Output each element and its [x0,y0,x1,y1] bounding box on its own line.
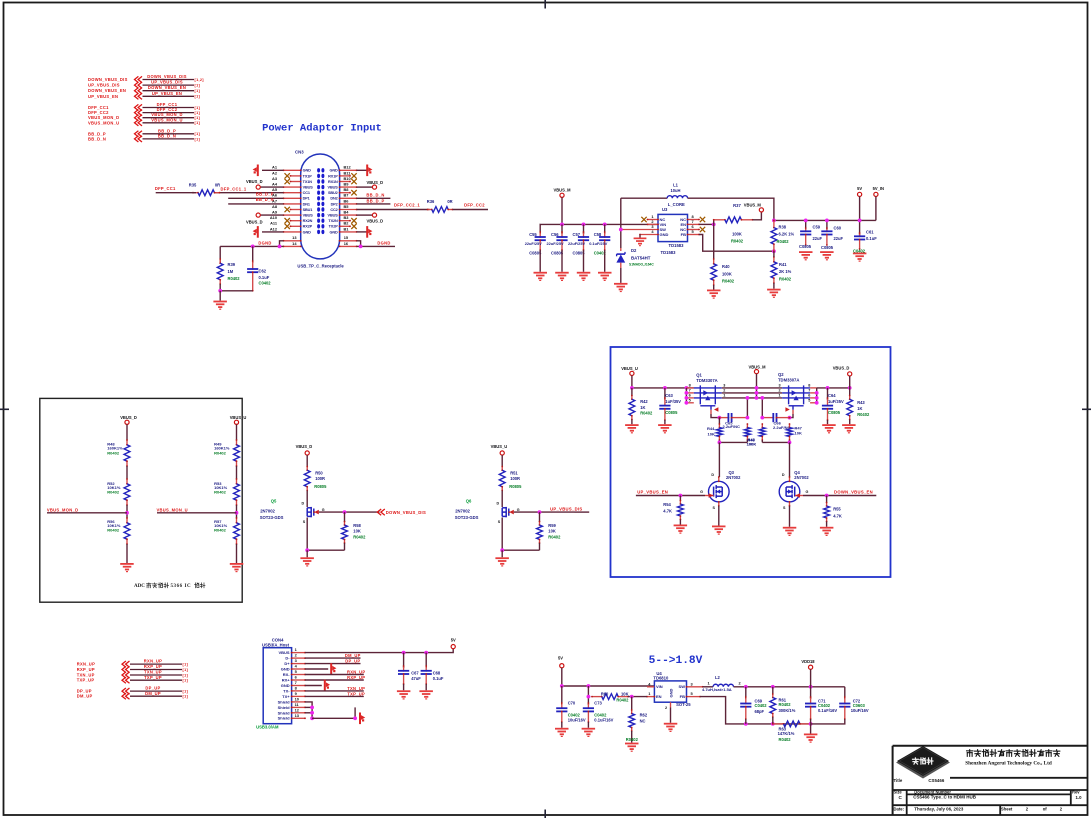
svg-text:of: of [1043,806,1048,811]
junction R54 tap [679,494,683,498]
svg-text:R0402: R0402 [107,450,120,455]
svg-text:BB_D_N: BB_D_N [256,197,274,202]
svg-text:TXP_UP: TXP_UP [347,691,365,696]
svg-text:SOT-25: SOT-25 [676,702,691,707]
wire Q1 to Q2 row2 [722,392,782,394]
wire BB_D_P A6 [228,197,283,199]
svg-text:100K: 100K [732,231,742,236]
resistor R63 147K in FB [773,723,784,725]
U3 right pin names [680,217,686,237]
ground below U4 [664,723,678,732]
labels R56 [107,519,121,533]
wire divider bottom [126,544,128,563]
svg-text:R41: R41 [779,262,787,267]
frame zone tick bottom [544,810,546,818]
resistor R60 10K [592,696,602,698]
svg-text:B2: B2 [344,221,350,226]
junction C68 [424,651,428,655]
svg-text:D-: D- [285,656,290,661]
wire B1 to gnd arrow [357,231,367,233]
svg-text:DFP_CC1_1: DFP_CC1_1 [221,186,247,191]
off-page connector DP_UP bottom [77,686,189,695]
capacitor C62 branch [252,246,254,263]
wire A4 to VBUS_D port [261,186,284,188]
svg-text:BB_D_P: BB_D_P [256,191,274,196]
svg-text:RXP_UP: RXP_UP [144,664,162,669]
U3 left pin numbers [651,214,654,234]
wire BB_D_N A7 [228,203,283,205]
CN3 pin B12 GND stub [340,169,357,171]
svg-text:R59: R59 [548,523,556,528]
svg-text:22uF/25V: 22uF/25V [547,241,564,246]
wire A1 to gnd arrow [262,169,284,171]
svg-text:R0402: R0402 [214,490,227,495]
junction R5x tap Q6 [538,510,542,514]
svg-text:C0805: C0805 [821,245,834,250]
svg-text:300K/1%: 300K/1% [779,708,796,713]
svg-text:[1]: [1] [183,695,189,699]
CON4 pin7 GND stub [292,685,305,687]
resistor R62 NC [629,697,635,743]
svg-text:6: 6 [689,394,691,398]
junction L1 out [772,219,776,223]
svg-text:[1]: [1] [195,84,201,88]
wire VIN rail [540,223,659,225]
junction C64 rail [826,386,830,390]
U3 pin4 GND stub [640,234,658,236]
svg-text:A10: A10 [270,215,277,220]
CON4 pin5 RX- stub [292,674,305,676]
wire Q3 source to ground [718,506,720,526]
svg-text:RXN_UP: RXN_UP [347,670,365,675]
ground below C73 [582,728,596,737]
wire shield to ground arrow [312,717,355,719]
svg-text:R55: R55 [833,507,841,512]
wire DFP_CC2 net [453,209,489,211]
ground at U3 pin4 [639,235,641,238]
resistor R48 160K [126,440,128,445]
svg-text:DGND: DGND [258,241,271,246]
ground below R42 [625,424,639,433]
svg-text:RXP_UP: RXP_UP [77,667,95,672]
svg-text:TDM3307A: TDM3307A [696,378,717,383]
no-connect X B11 [351,173,356,178]
power arrow CON4 pin7 [324,680,330,692]
ground below C57 [577,272,591,281]
U3 pin6 NC stub [688,229,700,231]
CN3 pin A2 stub [291,175,301,177]
svg-text:R0402: R0402 [722,278,735,283]
wire VBUS_M stem [561,197,563,224]
CN3 pin B11 stub [340,175,350,177]
svg-text:VDD18: VDD18 [801,659,815,664]
svg-text:U3: U3 [662,207,668,212]
CN3 pin S2 stub [284,245,301,247]
wire source to R bottom Q5 [307,549,344,551]
resistor pulldown at Q6 [537,512,543,550]
wire VIN rail regulator [562,685,655,687]
svg-text:0.1uF: 0.1uF [866,236,877,241]
svg-text:[1]: [1] [183,690,189,694]
svg-text:1: 1 [723,394,725,398]
svg-text:B3: B3 [344,215,350,220]
U4 pin1 EN stub [647,696,654,698]
wire R39 bottom [219,284,221,291]
U4 pin3 SW stub [687,686,703,688]
CN3 pin A4 VBUS stub [284,186,301,188]
off-page connector DOWN_VBUS_DIS [88,74,204,83]
svg-text:C68: C68 [433,670,441,675]
svg-text:DOWN_VBUS_EN: DOWN_VBUS_EN [148,85,186,90]
power port VBUS_M at R37 [759,208,763,212]
svg-text:0.1uF: 0.1uF [259,275,270,280]
CN3 pin A1 GND stub [284,169,301,171]
junction VBUS_M r3 [755,396,759,400]
svg-text:Q6: Q6 [466,498,472,503]
ground below C56 [555,272,569,281]
resistor R46 100K [759,423,765,442]
off-page connector DFP_CC2 [88,107,200,116]
no-connect X A8 [285,207,290,212]
U4 pin names [656,684,685,699]
U3 pin2 VIN stub [648,223,659,225]
svg-text:BB_D_P: BB_D_P [367,198,385,203]
wire FB down and right [699,235,774,252]
svg-text:TXN_UP: TXN_UP [347,686,365,691]
svg-text:5V: 5V [451,638,456,643]
ground below C59 [799,251,813,260]
svg-text:DOWN_VBUS_EN: DOWN_VBUS_EN [834,490,873,495]
svg-text:FB: FB [680,694,685,699]
CN3 pin A6 DP1 stub [284,197,301,199]
svg-text:VBUS_M: VBUS_M [744,203,762,208]
svg-text:B8: B8 [344,187,350,192]
inductor L1 10uH [667,196,687,199]
blue group box [611,347,891,577]
svg-text:DOWN_VBUS_DIS: DOWN_VBUS_DIS [88,77,128,82]
svg-text:R0402: R0402 [777,239,790,244]
wire source down Q6 [501,518,503,551]
wire source to R bottom Q6 [502,549,539,551]
svg-text:C0805: C0805 [799,244,812,249]
svg-text:DGND: DGND [377,241,390,246]
U3 pin3 SW stub [621,229,658,231]
resistor R38 6.2K [773,220,775,227]
junction FB gnd node [809,722,813,726]
CON4 pin4 GND stub [292,668,305,670]
no-connect X U3 pin8 [700,217,705,222]
wire SW node vertical [620,198,622,248]
no-connect X B8 [351,190,356,195]
labels R57 [214,519,228,533]
junction R55 tap [825,494,829,498]
svg-text:Power Adaptor Input: Power Adaptor Input [262,123,382,135]
wire Q1 gate node [711,414,719,418]
svg-text:A12: A12 [270,226,278,231]
svg-text:RX2N: RX2N [303,219,313,223]
power port VBUS_D at B4 [372,213,376,217]
svg-text:TXP_UP: TXP_UP [144,675,162,680]
capacitor C71 0.1uF [805,687,816,724]
svg-text:GND: GND [330,230,338,234]
ground below C60 [820,251,834,260]
svg-text:DM_UP: DM_UP [77,694,93,699]
wire L2 to VDD18 rail [734,686,845,688]
svg-text:C63: C63 [665,393,673,398]
svg-text:TX2N: TX2N [328,219,338,223]
svg-text:L1: L1 [673,182,679,187]
wire 5V_IN stem [875,197,877,221]
wire A12 to gnd arrow [262,231,284,233]
wire FB net down [700,697,744,724]
junction shield gnd [353,716,357,720]
svg-text:VBUS: VBUS [278,650,289,655]
capacitor C68 0.1uF [421,653,432,691]
resistor R52 [126,479,128,484]
svg-text:VBUS_M: VBUS_M [553,188,571,193]
svg-text:CN3: CN3 [295,150,304,155]
svg-text:TX1N: TX1N [303,180,313,184]
svg-text:VBUS_MON_U: VBUS_MON_U [151,117,182,122]
svg-text:B5: B5 [344,204,350,209]
svg-text:R0402: R0402 [107,490,120,495]
junction R61 bottom R63 left [771,722,775,726]
power arrow CON4 pin4 [330,663,336,675]
off-page connector VBUS_MON_D [88,112,200,121]
svg-text:1uF/35V: 1uF/35V [665,399,681,404]
wire FB bus [744,723,811,725]
svg-text:UP_VBUS_DIS: UP_VBUS_DIS [151,80,183,85]
resistor R50 100R [306,467,308,471]
ground below R55 [820,527,834,536]
wire GND pin4 [305,668,328,670]
svg-text:R0402: R0402 [626,737,639,742]
CN3 pin S1 stub [284,240,301,242]
resistor R55 4.7K [824,496,830,527]
svg-text:RX1N: RX1N [328,180,338,184]
svg-text:0.1uF/25V: 0.1uF/25V [589,241,608,246]
connector CON4 body [263,648,291,724]
svg-text:TDM3307A: TDM3307A [778,378,799,383]
CN3 pin B6 DP2 stub [340,203,357,205]
CN3 right pin numbers B12-B1 [344,165,352,232]
svg-text:DM_UP: DM_UP [345,653,361,658]
svg-text:VBUS: VBUS [328,186,339,190]
resistor R39 [219,259,221,263]
wire C66 left up to row3 [761,398,763,418]
resistor R40 100K EN pulldown [711,224,717,289]
svg-text:TXP_UP: TXP_UP [77,678,95,683]
svg-text:UP_VBUS_DIS: UP_VBUS_DIS [550,507,582,512]
no-connect X U3 pin6 [700,227,705,232]
wire R60 to EN pin [628,696,647,698]
junction shield 11 [310,706,314,710]
svg-text:[1]: [1] [195,111,201,115]
ground below divider VBUS_U [230,563,244,572]
svg-text:VBUS_M: VBUS_M [748,365,766,370]
CON4 pin names [278,650,291,721]
svg-text:TD6810: TD6810 [653,676,669,681]
wire TXN_UP [305,690,364,692]
svg-text:R60: R60 [601,691,609,696]
resistor R43 1K [847,388,853,424]
wire D2 to ground [620,268,622,283]
CN3 pin B2 stub [340,225,350,227]
capacitor C64 1uF/35V [822,388,833,424]
wire RXN_UP [305,674,364,676]
power port VBUS_D at A9 [256,213,260,217]
capacitor C59 22uF [800,220,811,246]
CN3 pin A10 stub [291,220,301,222]
svg-text:TX-: TX- [283,688,290,693]
no-connect X A2 [285,173,290,178]
svg-text:Date:: Date: [894,806,904,811]
svg-text:1K: 1K [640,405,645,410]
svg-text:68pF: 68pF [755,709,765,714]
resistor R44 10K [717,418,723,443]
svg-text:10uF/16V: 10uF/16V [851,708,869,713]
junction 5V rail [858,219,862,223]
ground below R54 [674,525,688,534]
wire divider mid2 [126,505,128,518]
CON4 shield pins stubs [291,701,306,719]
wire SW to L2 [703,686,713,688]
junction R46 top row [760,396,764,400]
svg-text:G: G [806,490,809,494]
caption ADC note chinese [134,583,205,589]
ground below D2 [614,283,628,292]
wire EN to R37/R40 node [699,223,714,225]
ground below Q3 [712,526,726,535]
svg-text:R42: R42 [640,399,648,404]
svg-text:TX+: TX+ [282,694,290,699]
svg-text:0.1uF/16V: 0.1uF/16V [594,717,613,722]
CON4 pin9 TX+ stub [292,695,305,697]
U4 pin2 GND stub [670,702,672,707]
ground below C63 [658,424,672,433]
junction C59 rail [804,219,808,223]
resistor R49 160K [236,440,238,445]
svg-text:2: 2 [723,389,725,393]
CN3 pin A7 DN1 stub [284,203,301,205]
logo chip diamond [896,746,950,779]
svg-text:22uF/25V: 22uF/25V [568,241,585,246]
svg-text:R47: R47 [795,425,803,430]
svg-text:A2: A2 [272,170,278,175]
svg-text:B4: B4 [344,210,350,215]
svg-text:22uF/25V: 22uF/25V [525,241,542,246]
junction C56 rail [582,223,586,227]
CN3 pin A11 stub [291,225,301,227]
svg-text:[1]: [1] [195,116,201,120]
svg-text:A1: A1 [272,165,278,170]
wire divider mid1 [236,466,238,479]
wire gate net ext Q6 [575,511,590,513]
off-page connector RXN_UP bottom [77,659,189,668]
svg-text:Shield: Shield [278,716,291,721]
junction C63 rail [663,386,667,390]
svg-text:4.7K: 4.7K [663,509,672,514]
junction EN node [712,223,716,227]
svg-text:A11: A11 [270,221,278,226]
svg-text:VBUS_U: VBUS_U [230,415,247,420]
svg-text:R0402: R0402 [228,276,241,281]
junction shield 13 [310,716,314,720]
junction Q1 bus r3 [685,396,689,400]
svg-text:SOT23-GDS: SOT23-GDS [455,515,479,520]
labels R53 [214,481,228,495]
capacitor C57 22uF/25V [568,224,589,271]
transistor Q3 2N7002 [705,442,729,506]
transistor Q1 TDM3307A dual pmos [686,385,721,414]
resistor R41 2K FB divider [771,251,777,289]
svg-text:G: G [700,490,703,494]
off-page connector BB_D_N [88,133,200,142]
wire shield bus [305,702,312,718]
off-page connector RXP_UP bottom [77,664,189,673]
wire U4 gnd [670,708,672,723]
CON4 pin3 D+ stub [292,663,305,665]
svg-text:100R: 100R [510,476,520,481]
svg-text:C64: C64 [828,393,836,398]
svg-text:UP_VBUS_DIS: UP_VBUS_DIS [88,83,120,88]
svg-text:USB3.0/AM: USB3.0/AM [256,725,279,730]
wire B4 to VBUS_D port [357,214,373,216]
no-connect X U3 pin1 [641,217,646,222]
svg-text:1M: 1M [228,269,234,274]
junction VBUS_M r2 [755,391,759,395]
Q2 left pin numbers 3 2 1 [778,384,780,398]
svg-text:RXN_UP: RXN_UP [77,662,95,667]
ground below Q6 [501,550,503,557]
svg-text:EN: EN [656,694,662,699]
svg-text:D2: D2 [631,248,637,253]
U3 right pin numbers [692,214,695,234]
wire R46 R47 bottoms [762,441,789,443]
svg-text:5366 IC: 5366 IC [171,584,192,589]
CON4 pin numbers [295,647,300,718]
junction VBUS_MON_D tap [125,511,129,515]
svg-text:VIN: VIN [656,684,663,689]
svg-text:2N7002: 2N7002 [726,475,741,480]
svg-text:7: 7 [689,389,691,393]
junction gate drop Q4 [788,441,792,445]
svg-text:C58: C58 [594,232,602,237]
wire Q2 gate node [790,414,794,418]
svg-text:CS5466 Type_C to HDMI HUB: CS5466 Type_C to HDMI HUB [913,795,976,800]
svg-text:[1]: [1] [195,132,201,136]
frame zone tick right [1082,408,1091,410]
ground below C68 [419,690,433,699]
svg-text:B12: B12 [344,165,352,170]
CN3 pin B4 VBUS stub [340,214,357,216]
connector CN3 USB_TP_C_Receptacle body [301,154,340,259]
svg-text:VBUS_D: VBUS_D [296,444,313,449]
title block row lines [893,778,1088,816]
wire L1 to output rail [688,198,774,220]
wire VBUS to 5V [305,649,453,653]
svg-text:GND: GND [660,232,669,237]
junction DGND left at C62 branch [251,245,255,249]
no-connect X A11 [285,224,290,229]
svg-text:100R: 100R [315,476,325,481]
ground below C58 [598,272,612,281]
svg-text:GND: GND [669,689,674,698]
svg-text:B6: B6 [344,198,350,203]
svg-text:7: 7 [295,680,297,685]
wire TXP_UP [305,695,364,697]
svg-text:[1]: [1] [195,137,201,141]
